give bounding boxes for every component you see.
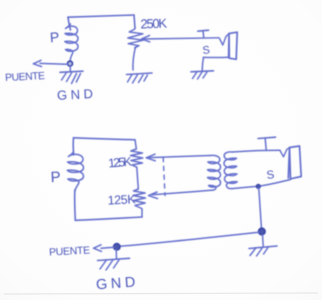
svg-text:125K: 125K [108, 154, 133, 170]
wiper arrow wire (pot to speaker) [144, 38, 220, 39]
wire top of primary loop [74, 138, 136, 140]
wire V to speaker [226, 34, 229, 37]
dashed gang link between wipers [163, 158, 165, 196]
wire right side top segment [135, 140, 136, 149]
svg-text:125K: 125K [107, 192, 136, 207]
potentiometer R1 250K (zigzag) [128, 28, 144, 48]
svg-text:PUENTE: PUENTE [5, 70, 46, 84]
faint ruled line bottom of page [4, 293, 318, 294]
svg-text:P: P [50, 169, 61, 187]
wire top horizontal (coil to pot) [68, 15, 134, 17]
label V (bottom, on wire) [280, 150, 287, 157]
arrowhead wiper R1 [142, 35, 150, 42]
svg-text:PUENTE: PUENTE [49, 244, 91, 258]
arrowhead PUENTE (bottom) [94, 245, 102, 252]
T symbol (top circuit) [198, 30, 209, 31]
ground GND2 (below pot) [127, 73, 153, 75]
wire T1b top to speaker [233, 150, 281, 152]
T symbol (bottom circuit) [258, 137, 276, 138]
ground GND5 (below node C) [115, 250, 117, 259]
ground GND3 (speaker, top right) [191, 71, 214, 72]
arrowhead PUENTE (top) [33, 60, 41, 66]
potentiometer R3 125K (lower zigzag) [133, 189, 145, 210]
wire right side bottom segment [141, 210, 143, 218]
wire right drop to pot [134, 15, 135, 28]
potentiometer R2 125K (upper zigzag) [131, 149, 143, 167]
label V (top circuit, on wire) [220, 37, 227, 46]
wire bottom of primary loop [75, 217, 142, 220]
wire junction down to node B [259, 188, 262, 229]
node C (bottom mid scribble) [114, 244, 120, 250]
ground GND1 (below node A) [69, 66, 71, 72]
wire left side lower [74, 190, 77, 220]
transformer winding T1b (right winding) [224, 152, 237, 189]
long wire node B to node C [120, 232, 260, 246]
ground GND4 (bottom right) [262, 235, 265, 246]
svg-text:250K: 250K [140, 16, 167, 32]
wire left drop to coil [68, 17, 71, 30]
inductor P2 (primary coil, bottom circuit) [67, 152, 83, 192]
node B (bottom right scribble) [259, 228, 265, 234]
arrowhead wiper R2 [146, 154, 155, 161]
wiper arrow wire upper (to winding T1a) [150, 156, 211, 158]
arrowhead wiper R3 [149, 192, 158, 199]
wire node to PUENTE arrow [40, 62, 68, 65]
node A (junction circle under coil) [68, 61, 73, 66]
wire T1b bottom to speaker bottom [232, 180, 291, 189]
junction blob J1 [256, 185, 260, 189]
wire V to speaker rect [287, 148, 290, 150]
svg-text:GND: GND [96, 274, 140, 293]
wire left side upper [72, 138, 74, 155]
speaker SP1 (rectangle) [229, 32, 238, 59]
svg-text:GND: GND [57, 86, 97, 103]
wire pot lower lead [133, 47, 136, 70]
wire node C to PUENTE arrow [101, 246, 114, 249]
wiper arrow wire lower (to winding T1a) [153, 190, 212, 195]
speaker SP2 (rectangle, bottom) [288, 146, 301, 179]
svg-text:P: P [49, 29, 59, 46]
inductor L1 (coil P, top circuit) [65, 24, 78, 61]
svg-text:S: S [202, 44, 211, 57]
wire between pots [137, 167, 139, 189]
wire speaker bottom to ground [204, 56, 230, 58]
transformer winding T1a (left winding) [208, 155, 221, 190]
